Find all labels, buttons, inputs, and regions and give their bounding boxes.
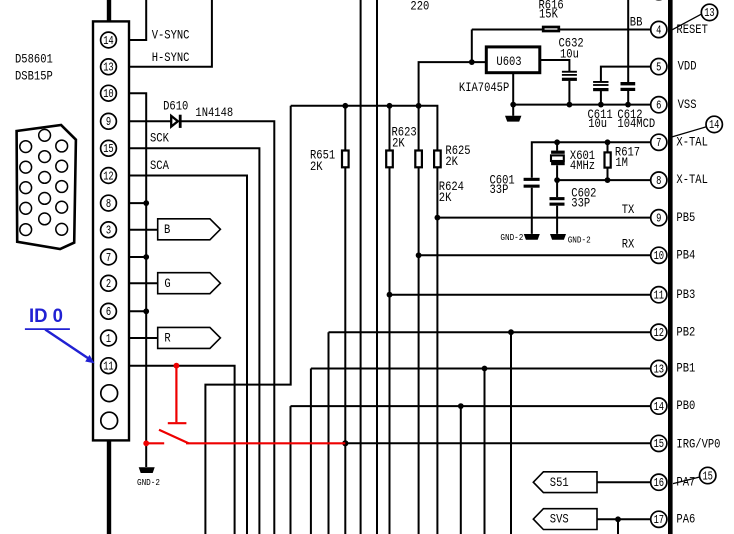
svg-text:PB4: PB4 (676, 247, 695, 262)
svg-text:G: G (164, 276, 170, 291)
svg-text:10u: 10u (560, 46, 579, 61)
svg-text:10u: 10u (588, 116, 607, 131)
svg-text:2K: 2K (310, 159, 323, 174)
svg-text:PB5: PB5 (676, 210, 695, 225)
svg-text:15K: 15K (539, 6, 559, 21)
svg-text:GND-2: GND-2 (500, 232, 523, 243)
svg-text:6: 6 (106, 306, 111, 319)
svg-text:VSS: VSS (678, 97, 697, 112)
svg-text:3: 3 (106, 225, 111, 238)
svg-text:33P: 33P (490, 182, 509, 197)
svg-text:11: 11 (103, 361, 113, 374)
svg-text:U603: U603 (496, 54, 521, 69)
svg-text:TX: TX (622, 202, 635, 217)
svg-text:PB0: PB0 (676, 398, 695, 413)
svg-text:S51: S51 (550, 475, 569, 490)
svg-text:IRG/VP0: IRG/VP0 (676, 436, 720, 451)
svg-text:GND-2: GND-2 (568, 235, 591, 246)
svg-text:VDD: VDD (678, 59, 697, 74)
svg-text:B: B (164, 222, 170, 237)
svg-text:13: 13 (654, 363, 664, 376)
svg-text:6: 6 (656, 100, 661, 113)
svg-text:GND-2: GND-2 (137, 477, 160, 488)
svg-text:D58601: D58601 (15, 52, 53, 67)
svg-text:2K: 2K (392, 136, 405, 151)
svg-text:8: 8 (106, 198, 111, 211)
svg-text:7: 7 (106, 252, 111, 265)
svg-text:1N4148: 1N4148 (195, 105, 233, 120)
svg-text:V-SYNC: V-SYNC (152, 27, 190, 42)
svg-text:PA6: PA6 (676, 511, 695, 526)
svg-text:KIA7045P: KIA7045P (459, 80, 509, 95)
svg-text:D610: D610 (163, 98, 188, 113)
svg-text:14: 14 (103, 35, 113, 48)
svg-text:DSB15P: DSB15P (15, 69, 53, 84)
svg-text:12: 12 (103, 170, 113, 183)
svg-text:11: 11 (654, 290, 664, 303)
svg-text:9: 9 (106, 116, 111, 129)
svg-text:H-SYNC: H-SYNC (152, 50, 190, 65)
svg-text:15: 15 (103, 143, 113, 156)
svg-text:X-TAL: X-TAL (676, 172, 708, 187)
svg-text:13: 13 (103, 62, 113, 75)
svg-text:PA7: PA7 (676, 474, 695, 489)
svg-text:BB: BB (630, 15, 643, 30)
svg-text:RESET: RESET (676, 22, 708, 37)
svg-text:4MHz: 4MHz (570, 158, 595, 173)
svg-text:17: 17 (654, 514, 664, 527)
svg-text:4: 4 (656, 24, 661, 37)
svg-text:SCA: SCA (150, 158, 170, 173)
svg-text:1M: 1M (615, 155, 628, 170)
svg-text:ID 0: ID 0 (29, 306, 63, 327)
svg-text:PB2: PB2 (676, 324, 695, 339)
svg-text:104MCD: 104MCD (617, 116, 655, 131)
svg-text:PB3: PB3 (676, 287, 695, 302)
svg-text:5: 5 (656, 61, 661, 74)
svg-text:SVS: SVS (550, 511, 569, 526)
svg-text:15: 15 (703, 470, 713, 483)
svg-text:9: 9 (656, 213, 661, 226)
svg-text:8: 8 (656, 175, 661, 188)
svg-text:7: 7 (656, 137, 661, 150)
svg-text:2K: 2K (445, 154, 458, 169)
svg-text:16: 16 (654, 477, 664, 490)
svg-text:15: 15 (654, 438, 664, 451)
svg-text:33P: 33P (571, 195, 590, 210)
svg-text:X-TAL: X-TAL (676, 134, 708, 149)
svg-text:12: 12 (654, 327, 664, 340)
svg-text:220: 220 (410, 0, 429, 14)
svg-text:PB1: PB1 (676, 361, 695, 376)
svg-text:14: 14 (709, 119, 719, 132)
svg-text:10: 10 (654, 250, 664, 263)
svg-text:14: 14 (654, 401, 664, 414)
svg-text:RX: RX (622, 237, 635, 252)
svg-text:10: 10 (103, 88, 113, 101)
svg-text:R: R (164, 331, 170, 346)
svg-text:13: 13 (704, 7, 714, 20)
svg-text:2: 2 (106, 278, 111, 291)
svg-text:1: 1 (106, 333, 111, 346)
svg-text:SCK: SCK (150, 131, 170, 146)
svg-text:2K: 2K (439, 190, 452, 205)
